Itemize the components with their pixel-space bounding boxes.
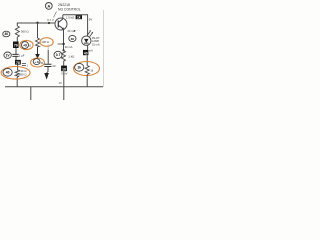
resistor R6 in highlight — [15, 70, 19, 77]
wire emitter down — [63, 30, 65, 52]
value box B5 — [76, 15, 82, 19]
svg-text:1 kΩ: 1 kΩ — [68, 54, 75, 58]
resistor R1 — [15, 26, 19, 37]
svg-text:10: 10 — [62, 67, 66, 71]
svg-text:+9: +9 — [23, 43, 27, 47]
svg-text:PILOT: PILOT — [92, 36, 100, 40]
current arrow marker — [74, 30, 76, 32]
node label circled A — [45, 3, 52, 10]
value box B1 — [13, 42, 19, 49]
meter circle M3 — [4, 52, 11, 58]
lamp DS1 — [82, 36, 91, 45]
svg-text:30: 30 — [71, 37, 75, 41]
battery lead right — [63, 87, 65, 100]
meter circle M2 — [22, 42, 29, 49]
svg-text:40: 40 — [4, 32, 8, 36]
annotation arrow down — [37, 47, 39, 54]
value box B4 — [83, 50, 88, 56]
battery lead left — [30, 87, 32, 100]
svg-text:560 Ω: 560 Ω — [21, 30, 29, 34]
wire R4 to rail — [86, 75, 88, 87]
svg-text:30: 30 — [52, 64, 56, 68]
svg-text:30 mA: 30 mA — [65, 45, 73, 49]
meter circle M4 — [3, 68, 12, 76]
wire left corner down — [16, 23, 18, 26]
svg-text:79: 79 — [14, 44, 18, 48]
junction dot emitter — [62, 49, 64, 51]
wire cap C1 to box B2 — [15, 56, 17, 60]
svg-text:0.7 V: 0.7 V — [47, 18, 54, 22]
svg-text:1.5 kΩ: 1.5 kΩ — [66, 16, 75, 20]
svg-text:+.6: +.6 — [34, 60, 39, 64]
meter circle M7 emitter — [54, 51, 62, 58]
lamp light arrows — [87, 32, 92, 37]
svg-text:mA: mA — [89, 48, 93, 52]
svg-text:LAMP: LAMP — [92, 39, 100, 43]
svg-text:680 Ω: 680 Ω — [19, 72, 27, 76]
svg-text:40: 40 — [84, 51, 88, 55]
wire cap branch lower — [47, 50, 49, 64]
junction dot base cap — [48, 22, 50, 24]
capacitor C1 — [12, 54, 18, 56]
svg-text:1 μF: 1 μF — [19, 54, 25, 58]
value box B2 — [15, 60, 21, 65]
transistor Q1 — [55, 18, 67, 30]
svg-text:5 mV: 5 mV — [61, 71, 67, 75]
meter circle M6 — [75, 63, 84, 71]
svg-text:15 mA: 15 mA — [92, 43, 100, 47]
svg-text:NO CONTROL: NO CONTROL — [58, 8, 81, 12]
resistor R4 — [85, 66, 89, 75]
svg-text:0V: 0V — [59, 81, 62, 85]
resistor R5 — [62, 51, 66, 62]
meter circle M1 — [3, 31, 10, 37]
wire R1 to box — [16, 37, 18, 42]
wire box to cap C1 — [15, 48, 17, 54]
highlight ellipse O1 — [20, 40, 33, 49]
svg-text:Ω: Ω — [29, 43, 31, 47]
wire B2 to ground rail — [17, 65, 19, 70]
ground rail — [5, 86, 103, 88]
wire base rail — [17, 22, 58, 24]
highlight ellipse O2 — [31, 58, 45, 67]
highlight ellipse O5 — [40, 38, 53, 47]
svg-text:2N2218: 2N2218 — [58, 3, 70, 7]
tick on emitter wire — [58, 43, 64, 45]
resistor R2 — [36, 38, 40, 47]
svg-text:9V: 9V — [89, 18, 93, 22]
wire lamp to box B4 — [87, 45, 89, 50]
wire C3 to arrow — [47, 67, 48, 74]
wire right corner down — [87, 15, 89, 36]
svg-text:78: 78 — [16, 61, 20, 65]
meter circle M5 — [33, 59, 40, 65]
svg-text:0.7: 0.7 — [56, 53, 61, 57]
wire collector up — [62, 15, 64, 19]
value box B3 — [61, 66, 67, 72]
wire B4 down — [86, 55, 88, 65]
tick at base — [55, 21, 57, 23]
wire R5 to box B3 — [63, 61, 65, 66]
wire B3 to rail — [63, 71, 65, 86]
wire collector rail — [63, 14, 88, 16]
junction dot base divider — [36, 22, 38, 24]
leader line from label to transistor — [54, 12, 57, 18]
svg-text:40: 40 — [6, 71, 10, 75]
capacitor C3 — [44, 64, 51, 66]
wire R6 to ground rail — [16, 77, 18, 87]
wire cap branch upper — [47, 45, 49, 51]
wire divider branch — [37, 23, 39, 38]
figure border right — [103, 10, 105, 87]
highlight ellipse O3 — [1, 67, 30, 80]
svg-text:1k: 1k — [77, 66, 81, 70]
meter circle M8 emitter top — [69, 35, 76, 41]
annotation arrowhead — [44, 73, 49, 80]
svg-text:1k: 1k — [77, 16, 81, 20]
capacitor C2 small — [22, 64, 26, 66]
svg-text:100 Ω: 100 Ω — [41, 40, 49, 44]
svg-text:A: A — [47, 3, 50, 8]
highlight ellipse O4 — [74, 62, 100, 76]
